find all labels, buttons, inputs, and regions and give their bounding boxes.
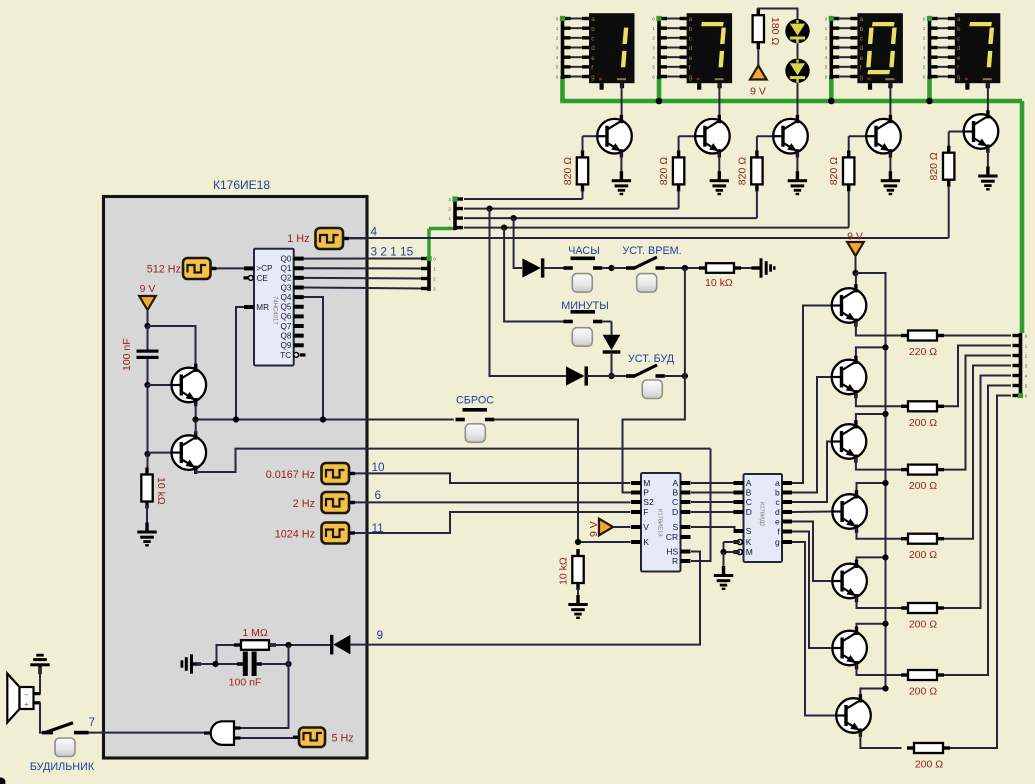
label SBROS	[456, 395, 494, 407]
label 512 Hz	[147, 264, 181, 276]
wire 1M right to diode line	[269, 644, 330, 646]
wires connector to display 3	[839, 19, 857, 77]
base wire Q_s2 from ID2 pin	[792, 377, 832, 493]
svg-text:c: c	[957, 36, 960, 43]
wire R_s6 to right connector	[944, 386, 1011, 676]
svg-text:9 V: 9 V	[140, 283, 156, 295]
wire AND output to pin 7	[89, 732, 205, 734]
wire D1 to CHASY switch	[543, 267, 563, 269]
svg-text:Q2: Q2	[280, 274, 291, 283]
svg-text:V: V	[643, 522, 649, 532]
transistor Q2 in box	[172, 431, 207, 474]
collector branch Q_s1	[855, 274, 857, 290]
wire 10k to ground in box	[146, 505, 148, 524]
svg-text:d: d	[860, 45, 864, 52]
wires 4017 Q0-Q3 to lower connector	[304, 259, 422, 289]
wire vertical 685 from 268 to 376 to P route	[623, 268, 685, 493]
label 1 MOhm	[242, 627, 268, 639]
wire R_b2 to scan line	[678, 190, 680, 208]
wire UST VREM to junction 685	[665, 267, 700, 269]
base wire Q_s4 from ID2 pin	[792, 511, 832, 514]
resistor R_s4 200 Ω	[901, 534, 944, 544]
wire speaker plus to switch	[40, 703, 42, 733]
svg-text:M: M	[643, 478, 650, 488]
svg-text:M: M	[746, 547, 753, 557]
svg-text:ЧАСЫ: ЧАСЫ	[568, 245, 600, 257]
svg-text:K: K	[746, 537, 752, 547]
wire Q2 collector to reset node	[195, 420, 197, 436]
svg-text:Q4: Q4	[280, 293, 291, 302]
wire 9V to rail	[855, 256, 857, 273]
resistor R_colon 180 ohm	[753, 8, 764, 49]
junction dot rail 2	[882, 344, 888, 350]
svg-text:a: a	[591, 16, 595, 23]
label pin 9	[377, 628, 384, 642]
ground of Q_d5	[978, 167, 997, 191]
emitter wire Q_s1 to resistor	[856, 322, 902, 336]
label 5 Hz	[332, 733, 354, 745]
label R_s2	[909, 417, 937, 429]
svg-text:Q6: Q6	[280, 312, 291, 321]
resistor 10k at K pin	[572, 549, 583, 590]
svg-text:CR: CR	[666, 532, 678, 542]
supply 9V for colon	[750, 66, 767, 80]
resistor 1 MOhm	[234, 640, 276, 650]
svg-text:f: f	[689, 65, 691, 72]
resistor R_b2 820 ohm	[673, 150, 684, 191]
label pins 3 2 1 15	[371, 245, 414, 259]
svg-text:D: D	[746, 507, 752, 517]
transistor Q_d3 display driver	[773, 115, 808, 158]
wire base Q2	[148, 452, 172, 454]
svg-text:УСТ. ВРЕМ.: УСТ. ВРЕМ.	[622, 245, 681, 257]
svg-text:К176ИЕ18: К176ИЕ18	[213, 178, 270, 192]
svg-text:10 kΩ: 10 kΩ	[155, 477, 167, 505]
base wire Q_s3 from ID2 pin	[792, 442, 832, 503]
wire Q2 tap to CHASY diode	[514, 218, 522, 268]
label 820 ohm 5	[928, 152, 940, 180]
svg-text:74HC4017: 74HC4017	[272, 296, 278, 325]
ground in box below 10k	[137, 523, 156, 547]
ground of Q_d3	[788, 171, 807, 195]
emitter wire Q_s4 to resistor	[857, 528, 902, 539]
svg-text:B: B	[673, 487, 679, 497]
junction dot 147,454	[144, 451, 150, 457]
collector branch Q_s2	[856, 347, 886, 361]
IC 74HC4017 body	[254, 249, 294, 366]
svg-text:Q0: Q0	[280, 254, 291, 263]
wires connector to display 4	[938, 19, 955, 77]
collector branch Q_s4	[857, 483, 886, 496]
label 74HC4017 vertical	[272, 296, 278, 325]
74HC4017 right pins Q0-Q9 TC	[280, 254, 305, 360]
corner artifact dot	[0, 778, 6, 784]
wire node vertical to AND input	[240, 645, 289, 728]
svg-text:g: g	[957, 74, 961, 81]
svg-text:−: −	[24, 691, 29, 700]
svg-text:c: c	[591, 36, 594, 43]
AND gate alarm facing left	[204, 721, 241, 745]
svg-text:g: g	[860, 74, 864, 81]
speaker BUDILNIK	[7, 674, 40, 723]
emitter wire Q_s6 to resistor	[857, 664, 902, 675]
label pin 11	[372, 521, 384, 535]
resistor R_s6 200 Ω	[901, 670, 944, 680]
label K176IE18	[213, 178, 270, 192]
junction dot Q4 node	[320, 416, 326, 422]
base wire Q_s1 from ID2 pin	[792, 306, 832, 484]
collector branch Q_s6	[857, 624, 886, 632]
svg-text:b: b	[689, 26, 693, 33]
svg-text:820 Ω: 820 Ω	[828, 157, 840, 185]
label K176ID2 vertical	[759, 502, 765, 526]
svg-text:g: g	[689, 74, 693, 81]
wire base network Q_d5	[949, 132, 964, 148]
svg-text:f: f	[591, 65, 593, 72]
collector branch Q_s3	[856, 414, 886, 426]
transistor Q_s4 segment driver	[832, 490, 867, 533]
scan line Q2 net	[464, 217, 757, 219]
emitter wire Q_d4 to ground	[889, 152, 891, 172]
junction dot 147,385	[144, 382, 150, 388]
junction dot at 611.5,376	[608, 373, 614, 379]
svg-text:TC: TC	[280, 351, 291, 360]
bus connector for display DS3 minutes tens	[825, 16, 840, 79]
resistor R_s1 220 Ω	[901, 331, 944, 341]
svg-text:F: F	[643, 507, 648, 517]
wire Q1 tap to alarm diode D3	[490, 209, 567, 376]
label MINUTY	[561, 300, 609, 312]
junction dot rail 7	[882, 685, 888, 691]
capacitor 100nF in box	[137, 326, 159, 385]
wires connector to display 1	[571, 19, 590, 77]
supply 9V at V pin	[599, 519, 631, 536]
junction dot 288,664	[285, 661, 291, 667]
label 1024 Hz	[275, 529, 315, 541]
label 10 kOhm in box	[155, 477, 167, 505]
svg-text:100 nF: 100 nF	[121, 338, 133, 371]
wire base network Q_d4	[849, 136, 867, 152]
svg-text:1 Hz: 1 Hz	[287, 233, 309, 245]
svg-text:b: b	[591, 26, 595, 33]
wire base network Q_d3	[757, 136, 773, 152]
wire junction to Q1 collector	[148, 326, 196, 367]
junction dot 147,326	[144, 323, 150, 329]
source 1024 Hz	[322, 523, 356, 544]
svg-text:+: +	[24, 700, 29, 709]
junction dot Q1 line tap	[486, 206, 492, 212]
svg-text:Q5: Q5	[280, 303, 291, 312]
junction dot K pin node	[575, 539, 581, 545]
svg-text:g: g	[775, 537, 780, 547]
svg-text:К176ИД2: К176ИД2	[759, 502, 765, 526]
svg-text:g: g	[591, 74, 595, 81]
wire 9V to junction	[147, 310, 149, 326]
switch CHASY closed	[564, 258, 603, 268]
wire base network Q_d1	[583, 136, 598, 152]
svg-text:d: d	[591, 45, 595, 52]
emitter wire Q_s5 to resistor	[857, 597, 902, 608]
green bus junction dots	[656, 98, 933, 105]
emitter wire Q_d2 to ground	[718, 152, 720, 172]
transistor Q_s7 segment driver	[836, 694, 871, 737]
junction dot rail 3	[882, 411, 888, 417]
label 100nF bottom	[229, 677, 262, 689]
svg-text:b: b	[860, 26, 864, 33]
resistor R_b4 820 ohm	[843, 150, 854, 191]
junction dot K M node	[720, 549, 726, 555]
wire R_s4 to right connector	[944, 366, 1011, 539]
bus connector for display DS1 hours tens	[556, 16, 571, 79]
label 820 ohm 4	[828, 157, 840, 185]
pushbutton UST VREM	[637, 274, 657, 293]
wire S to S between chips	[691, 527, 735, 531]
wire R_b5 to scan line	[948, 186, 950, 239]
wire junction to UST BUD switch	[612, 375, 627, 377]
green bus wire from displays to right connector	[560, 76, 1022, 334]
scan line Q0 net	[464, 198, 583, 200]
junction dot at 611.5,268	[608, 265, 614, 271]
wire 0.0167Hz to M pin	[355, 473, 631, 483]
label 2 Hz	[293, 498, 315, 510]
wire R pin link	[691, 449, 711, 561]
wire diode to box pin 9	[350, 644, 368, 646]
svg-text:9 V: 9 V	[847, 231, 863, 243]
svg-text:5 Hz: 5 Hz	[332, 733, 354, 745]
transistor Q_s6 segment driver	[832, 627, 867, 670]
ground below 10k K pin	[568, 595, 587, 619]
7-segment display DS1 hours tens showing 1	[589, 13, 635, 90]
ground left at cap	[181, 654, 202, 673]
wires connector to display 2	[667, 19, 687, 77]
junction dot 9V rail	[852, 270, 858, 276]
green bus cap at connector 1	[560, 16, 565, 21]
ground right of 10k	[752, 258, 776, 277]
diode D2 vertical	[603, 335, 621, 354]
svg-text:f: f	[957, 65, 959, 72]
svg-text:e: e	[860, 55, 864, 62]
resistor R_b5 820 ohm	[943, 146, 954, 187]
wire R_s7 to right connector	[950, 396, 1011, 749]
scan line Q1 net	[464, 208, 679, 210]
svg-text:d: d	[775, 507, 780, 517]
svg-text:10: 10	[372, 460, 386, 474]
7-segment display DS3 minutes tens showing 0	[857, 13, 903, 90]
junction dot MR node	[233, 416, 239, 422]
wire HS pin to alarm line	[368, 552, 700, 645]
emitter wire Q_d5 to ground	[987, 148, 989, 168]
IC K176IE13 body	[641, 473, 681, 572]
wire CHASY to junction	[602, 267, 611, 269]
svg-text:9 V: 9 V	[750, 86, 766, 98]
green bus cap at connector 2	[656, 16, 661, 21]
svg-text:6: 6	[375, 488, 382, 502]
wire reset node to SBROS	[196, 419, 454, 421]
wire 147 down to 10k resistor	[147, 454, 149, 470]
svg-text:9 V: 9 V	[588, 521, 600, 537]
source 0.0167 Hz	[322, 463, 356, 484]
junction dot cap left	[212, 661, 218, 667]
inverted ground above speaker	[30, 654, 49, 675]
svg-text:200 Ω: 200 Ω	[909, 417, 937, 429]
wire R_b3 to scan line	[756, 190, 758, 218]
svg-text:820 Ω: 820 Ω	[562, 157, 574, 185]
wire Q3 tap to MINUTY switch	[504, 228, 563, 322]
wire gnd to cap	[196, 663, 216, 665]
svg-text:200 Ω: 200 Ω	[909, 480, 937, 492]
supply 9V right array	[847, 231, 864, 257]
svg-text:Q3: Q3	[280, 283, 291, 292]
svg-text:БУДИЛЬНИК: БУДИЛЬНИК	[30, 761, 95, 773]
wire display DS4 common to driver Q_d5	[987, 83, 989, 114]
pushbutton UST BUD	[642, 380, 662, 399]
pushbutton CHASY	[572, 274, 592, 293]
MR wire from 4017 to reset node	[236, 307, 244, 420]
source 2 Hz	[322, 492, 356, 513]
label 820 ohm 1	[562, 157, 574, 185]
wire 10k to ground	[577, 588, 579, 602]
wire R_s3 to right connector	[944, 356, 1011, 470]
label 820 ohm 3	[736, 157, 748, 185]
collector branch Q_s5	[857, 557, 886, 565]
svg-text:100 nF: 100 nF	[229, 677, 262, 689]
svg-text:820 Ω: 820 Ω	[736, 157, 748, 185]
svg-text:P: P	[643, 487, 649, 497]
resistor R_s2 200 Ω	[901, 401, 944, 411]
svg-text:D: D	[672, 507, 678, 517]
emitter wire Q_s2 to resistor	[856, 393, 902, 406]
K176IE13 right pins	[666, 478, 691, 566]
wire D3 to junction 611	[587, 375, 612, 377]
ground of Q_d4	[881, 171, 900, 195]
svg-text:820 Ω: 820 Ω	[658, 157, 670, 185]
transistor Q_s2 segment driver	[832, 356, 867, 399]
K176ID2 right pins a-g	[775, 478, 792, 547]
label UST BUD	[628, 353, 675, 365]
green cap upper connector	[452, 196, 457, 201]
wires IE13 to ID2 A B C D	[691, 483, 734, 512]
svg-text:f: f	[860, 65, 862, 72]
junction dot rail 6	[882, 621, 888, 627]
label 100nF box top	[121, 338, 133, 371]
wire Q2 emitter to R output	[196, 449, 711, 472]
gray box K176IE18 outline	[104, 197, 368, 759]
wire display DS1 common to driver Q_d1	[621, 83, 623, 119]
pushbutton BUDILNIK	[55, 738, 75, 757]
svg-text:MR: MR	[256, 303, 269, 312]
svg-text:S: S	[673, 522, 679, 532]
svg-text:512 Hz: 512 Hz	[147, 264, 181, 276]
emitter wire Q_d1 to ground	[620, 152, 622, 172]
svg-text:a: a	[775, 478, 780, 488]
svg-text:C: C	[672, 497, 678, 507]
wire D2 to UST BUD line	[611, 354, 613, 376]
wire 5Hz to AND input	[241, 737, 294, 739]
scan line Q3 net	[464, 227, 849, 229]
transistor Q_d1 display driver	[597, 115, 632, 158]
wire UST BUD to junction 685	[665, 375, 685, 377]
wire R_b4 to scan line	[848, 190, 850, 227]
switch UST BUD open	[626, 365, 665, 376]
1 Hz line from pin 4 to Q_d5 base resistor	[348, 237, 949, 239]
wire 10k to ground right	[741, 267, 759, 269]
wire colon LEDs to driver Q_d3 collector	[797, 83, 799, 120]
resistor R_b1 820 ohm	[577, 150, 588, 191]
svg-text:1 MΩ: 1 MΩ	[242, 627, 268, 639]
switch BUDILNIK open	[42, 723, 89, 733]
svg-text:R: R	[672, 556, 678, 566]
diode D4 pin 9	[330, 635, 350, 655]
svg-text:a: a	[957, 16, 961, 23]
svg-text:СБРОС: СБРОС	[456, 395, 494, 407]
svg-text:c: c	[689, 36, 692, 43]
ground of Q_d1	[612, 171, 631, 195]
switch UST VREM open	[626, 257, 665, 268]
emitter wire Q_d3 to ground	[796, 152, 798, 172]
wire display DS3 common to driver Q_d4	[889, 83, 891, 119]
junction dot Q1 emitter node	[192, 416, 198, 422]
label 0.0167 Hz	[266, 469, 315, 481]
transistor Q_d2 display driver	[695, 115, 730, 158]
capacitor 100nF bottom	[237, 652, 262, 677]
transistor Q_s5 segment driver	[832, 560, 867, 603]
svg-text:a: a	[860, 16, 864, 23]
base wire Q_s7 from ID2 pin	[792, 542, 836, 716]
svg-text:d: d	[957, 45, 961, 52]
wire cap right to node	[261, 663, 289, 665]
svg-text:A: A	[746, 478, 752, 488]
label R_s4	[909, 549, 937, 561]
svg-text:9: 9	[377, 628, 384, 642]
wire ground to speaker minus	[39, 667, 41, 694]
resistor R_b3 820 ohm	[751, 150, 762, 191]
resistor R_s3 200 Ω	[901, 465, 944, 475]
label pin 6	[375, 488, 382, 502]
svg-text:200 Ω: 200 Ω	[909, 549, 937, 561]
label 10 kOhm horizontal	[705, 277, 733, 289]
bus connector for display DS4 minutes units	[923, 16, 938, 79]
svg-text:2 Hz: 2 Hz	[293, 498, 315, 510]
resistor R_s7 200 Ω	[907, 743, 950, 753]
transistor Q1 in box	[172, 364, 207, 407]
svg-text:K: K	[643, 537, 649, 547]
svg-text:e: e	[957, 55, 961, 62]
wire 1Hz to pin4 line	[349, 237, 368, 239]
label pin 10	[372, 460, 386, 474]
junction dot Q3 line tap	[501, 225, 507, 231]
svg-text:b: b	[957, 26, 961, 33]
emitter wire Q_s7 to resistor	[860, 732, 901, 749]
wire base Q1	[148, 384, 172, 386]
label R_s6	[909, 686, 937, 698]
resistor R_s5 200 Ω	[901, 603, 944, 613]
wire 1M left to cap node	[217, 645, 244, 664]
wire 147 down to Q2 base tap	[147, 385, 149, 454]
svg-text:3 2 1 15: 3 2 1 15	[371, 245, 414, 259]
svg-text:>CP: >CP	[256, 264, 273, 273]
svg-text:d: d	[689, 45, 693, 52]
svg-text:7: 7	[89, 715, 96, 729]
diode D1 hours	[522, 258, 544, 277]
junction dot Q2 line tap	[510, 215, 516, 221]
base wire Q_s6 from ID2 pin	[792, 532, 832, 649]
svg-text:S2: S2	[643, 497, 654, 507]
junction dot rail 4	[882, 480, 888, 486]
green cap right connector	[1018, 393, 1023, 398]
wire MINUTY to vertical node	[602, 321, 611, 323]
LED colon lower	[785, 58, 809, 82]
source 512 Hz	[183, 258, 217, 279]
